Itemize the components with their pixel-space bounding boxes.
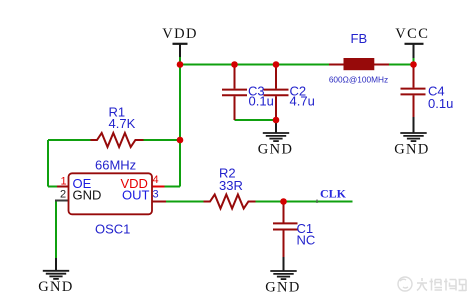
svg-text:GND: GND — [394, 142, 430, 158]
svg-text:GND: GND — [38, 279, 74, 295]
svg-text:CLK: CLK — [320, 187, 347, 201]
svg-text:OSC1: OSC1 — [95, 222, 130, 237]
svg-text:600Ω@100MHz: 600Ω@100MHz — [329, 74, 388, 84]
svg-text:0.1u: 0.1u — [428, 96, 453, 111]
svg-text:66MHz: 66MHz — [95, 158, 136, 173]
svg-text:FB: FB — [351, 31, 368, 46]
svg-text:VCC: VCC — [395, 26, 429, 42]
svg-text:3: 3 — [153, 189, 159, 201]
svg-text:GND: GND — [258, 142, 294, 158]
svg-text:2: 2 — [60, 189, 66, 201]
svg-text:GND: GND — [265, 279, 301, 295]
svg-text:OUT: OUT — [122, 188, 150, 203]
svg-text:4.7u: 4.7u — [290, 94, 315, 109]
svg-text:GND: GND — [73, 188, 102, 203]
svg-text:0.1u: 0.1u — [249, 94, 274, 109]
svg-text:1: 1 — [61, 176, 67, 188]
svg-text:VDD: VDD — [162, 26, 198, 42]
svg-text:33R: 33R — [219, 178, 243, 193]
svg-text:4: 4 — [153, 174, 159, 186]
svg-text:NC: NC — [297, 233, 316, 248]
svg-text:4.7K: 4.7K — [109, 116, 136, 131]
